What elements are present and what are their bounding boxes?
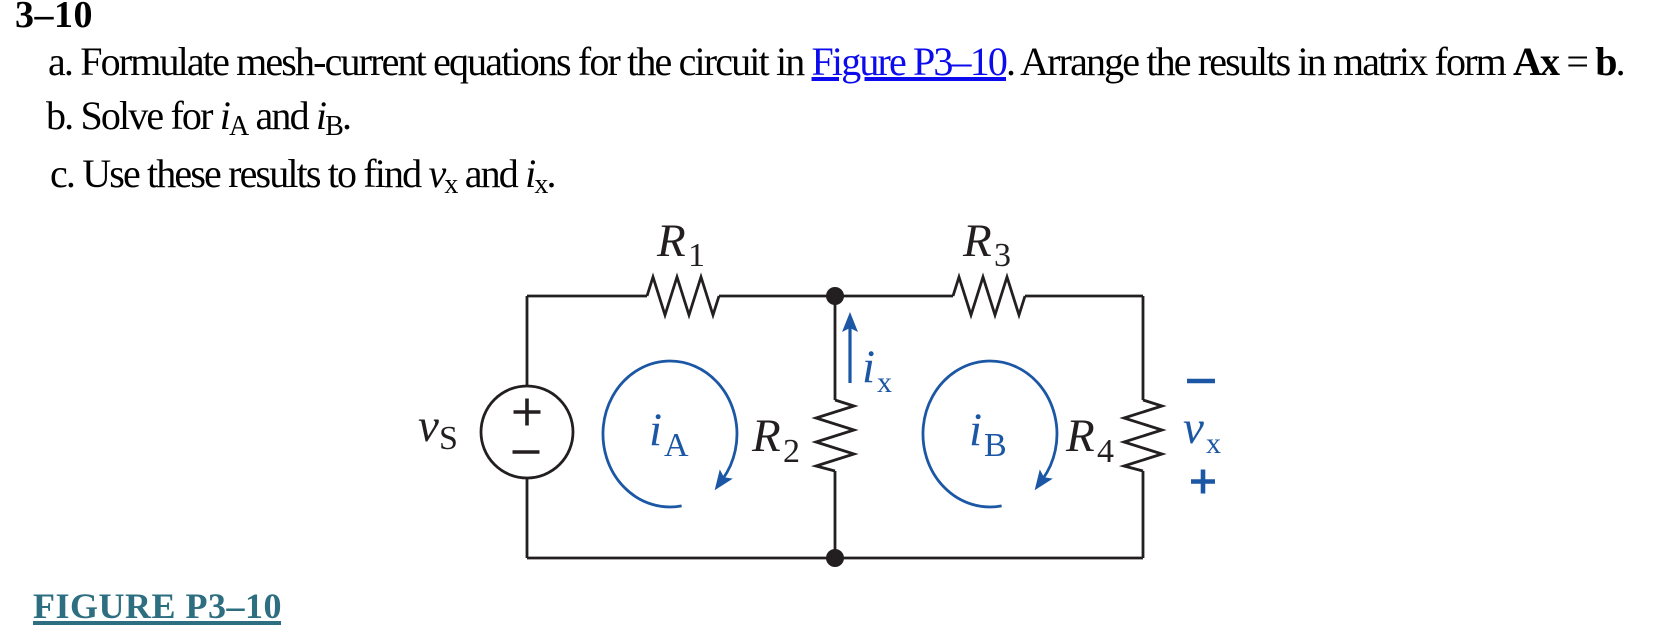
svg-text:1: 1	[688, 237, 705, 274]
label R2	[751, 410, 800, 470]
svg-text:R: R	[1065, 410, 1095, 462]
current arrow ix	[848, 326, 851, 383]
resistor R4	[1124, 400, 1162, 471]
label R4	[1065, 410, 1114, 470]
svg-text:x: x	[877, 366, 892, 399]
label R3	[962, 215, 1011, 274]
label iB	[969, 404, 1007, 464]
svg-text:A: A	[664, 427, 689, 464]
svg-text:i: i	[649, 404, 662, 456]
svg-text:R: R	[656, 215, 686, 267]
vx plus sign	[1191, 470, 1215, 494]
svg-text:v: v	[1183, 402, 1204, 454]
svg-text:4: 4	[1097, 433, 1114, 470]
mesh arrow iA	[603, 361, 737, 507]
wire: right vertical below R4	[1142, 471, 1145, 558]
label vx	[1183, 402, 1221, 460]
svg-text:x: x	[1206, 427, 1221, 460]
wire: right vertical above R4	[1142, 296, 1145, 400]
label iA	[649, 404, 689, 464]
svg-text:i: i	[862, 341, 875, 393]
svg-text:v: v	[418, 400, 439, 452]
mesh arrow iB	[923, 361, 1057, 507]
node: bottom junction	[826, 549, 844, 567]
svg-text:S: S	[439, 420, 458, 457]
wire: top middle segment R1 to node	[719, 295, 953, 298]
wire: left vertical below source	[526, 477, 529, 558]
label R1	[656, 215, 705, 274]
svg-text:i: i	[969, 404, 982, 456]
wire: bottom horizontal	[527, 557, 1143, 560]
svg-text:R: R	[751, 410, 781, 462]
svg-text:2: 2	[783, 433, 800, 470]
svg-text:3: 3	[994, 237, 1011, 274]
resistor R2	[816, 400, 854, 471]
wire: left vertical above source	[526, 296, 529, 387]
wire: middle vertical node to R2	[834, 296, 837, 400]
voltage source vS	[481, 386, 573, 478]
wire: top-left horizontal segment from source to R1	[527, 295, 647, 298]
resistor R1	[647, 277, 719, 315]
vS plus sign	[514, 399, 541, 426]
svg-text:R: R	[962, 215, 992, 267]
vx minus sign	[1187, 379, 1215, 384]
svg-text:B: B	[984, 427, 1007, 464]
label ix	[862, 341, 892, 399]
resistor R3	[953, 277, 1025, 315]
wire: middle vertical below R2	[834, 471, 837, 558]
node: top junction	[826, 287, 844, 305]
vS minus sign	[513, 450, 540, 454]
wire: top-right segment R3 to right corner	[1025, 295, 1143, 298]
